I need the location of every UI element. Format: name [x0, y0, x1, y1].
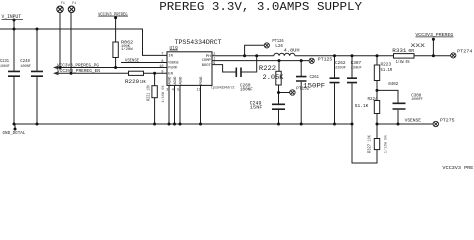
svg-text:PT125: PT125: [318, 56, 333, 62]
wire PH node: [212, 55, 274, 57]
svg-text:1: 1: [213, 57, 215, 61]
svg-text:VCC3V3 PRE: VCC3V3 PRE: [442, 166, 473, 169]
svg-text:220UF: 220UF: [335, 67, 347, 71]
node comp C261: [300, 59, 303, 62]
svg-text:IN: IN: [168, 55, 173, 59]
resistor R223 leads: [376, 56, 378, 91]
wire C260 to PH: [242, 56, 257, 72]
svg-text:BOOT: BOOT: [202, 64, 212, 68]
svg-text:R221 10K: R221 10K: [146, 85, 152, 101]
wire R222 riser: [278, 61, 280, 72]
svg-text:AGND: AGND: [168, 77, 172, 85]
node vsense R224/R327: [376, 123, 379, 126]
wire vsense net segment: [377, 123, 433, 125]
wire EN row: [57, 72, 168, 74]
svg-text:100UF: 100UF: [0, 65, 10, 69]
label VCC3V3_PREREG right: [415, 33, 453, 38]
svg-text:150PF: 150PF: [303, 82, 325, 89]
node gnd pin5: [179, 123, 182, 126]
wire top V_INPUT bus: [0, 29, 167, 55]
capacitor C308 plates: [393, 103, 406, 109]
svg-text:11: 11: [197, 89, 201, 93]
resistor R327 body: [374, 139, 379, 150]
svg-text:9: 9: [213, 62, 215, 66]
wire PGOOD row: [57, 67, 168, 69]
label C307: [351, 62, 363, 71]
resistor R222 body: [276, 71, 281, 85]
svg-text:R222: R222: [259, 65, 276, 72]
svg-text:R220: R220: [125, 78, 140, 85]
node vsense C308: [397, 123, 400, 126]
svg-text:R223: R223: [381, 63, 392, 68]
svg-text:1/16W 5%: 1/16W 5%: [383, 134, 388, 153]
svg-text:1/16W 5%: 1/16W 5%: [161, 85, 166, 103]
wire BOOT to C260: [212, 65, 236, 72]
svg-text:4: 4: [172, 89, 174, 93]
svg-text:PGOOD: PGOOD: [168, 67, 178, 71]
svg-text:VCC3V3_PREREG: VCC3V3_PREREG: [98, 12, 128, 17]
svg-text:PT274: PT274: [457, 49, 472, 55]
label VCC3V3_PREREG left: [98, 12, 128, 17]
label V_INPUT: [2, 14, 24, 20]
resistor R221 body: [152, 86, 157, 98]
svg-text:C249: C249: [250, 100, 262, 107]
testpoint PT125: [309, 58, 314, 63]
svg-text:C262: C262: [335, 62, 346, 66]
resistor R220 body: [129, 71, 144, 75]
svg-text:VSENSE: VSENSE: [168, 62, 179, 66]
IC pin numbers left: [159, 53, 163, 75]
node rail VCC label: [432, 54, 435, 57]
testpoint PT274: [451, 53, 456, 58]
IC bottom pin 3 wire: [168, 85, 170, 124]
IC pin names right: [202, 55, 212, 68]
label C260: [240, 84, 253, 92]
node fb divider: [376, 89, 379, 92]
node bus/C231: [13, 28, 16, 31]
wire rail after R331: [414, 55, 451, 57]
node gnd pin4: [173, 123, 176, 126]
off-page arrow row2: [53, 71, 59, 75]
capacitor C307 leads: [351, 56, 353, 124]
resistor R222 leads: [278, 85, 280, 124]
svg-text:R327 10K: R327 10K: [366, 135, 372, 153]
svg-text:tps54334drct: tps54334drct: [211, 86, 235, 91]
capacitor C308 lower lead: [397, 110, 399, 124]
node R062/PGOOD: [114, 66, 117, 69]
label C249: [250, 100, 264, 111]
resistor R221 leads: [154, 73, 156, 124]
resistor R224 leads: [376, 90, 378, 124]
resistor R062 body: [113, 42, 118, 58]
svg-text:F1: F1: [72, 2, 77, 6]
svg-text:L26: L26: [275, 43, 283, 49]
node VCC label anchor: [114, 16, 117, 19]
capacitor C261 plates: [296, 77, 307, 81]
wire PT152: [279, 92, 290, 94]
svg-text:C248: C248: [20, 59, 30, 64]
node V_INPUT anchor: [13, 19, 16, 22]
capacitor C248 leads: [36, 29, 38, 124]
node gnd R221: [153, 123, 156, 126]
capacitor C249 plates: [272, 104, 285, 109]
resistor R327 leads and return loop: [352, 124, 377, 163]
node bus/C248: [36, 28, 39, 31]
inductor L26: [274, 53, 295, 56]
testpoint screw top 1: [57, 6, 456, 127]
off-page arrow row1: [53, 66, 59, 70]
label C262: [335, 62, 347, 71]
resistor R331 body: [394, 54, 415, 59]
capacitor C231 leads: [13, 29, 15, 124]
label R331 0R: [392, 48, 414, 54]
node gnd C248: [36, 123, 39, 126]
node gnd C249: [277, 123, 280, 126]
IC bottom pin 4 wire: [174, 85, 176, 124]
node row1/drop1: [59, 66, 62, 69]
svg-text:GND_DGTAL: GND_DGTAL: [3, 130, 26, 136]
svg-text:XXX: XXX: [411, 42, 426, 49]
wire VCC3V3_PREREG right riser: [432, 39, 434, 56]
label R220: [125, 78, 146, 85]
label R062: [121, 39, 133, 52]
testpoint PT152: [290, 90, 295, 95]
ground bus: [15, 123, 352, 125]
label R221 rotated: [146, 85, 166, 103]
svg-text:0R: 0R: [408, 48, 414, 54]
svg-text:51.1K: 51.1K: [355, 103, 369, 109]
resistor R062 leads: [115, 18, 117, 68]
IC U19 TPS54334DRCT body: [167, 52, 212, 86]
testpoint PT126: [264, 43, 269, 48]
label C248: [20, 59, 31, 69]
wire V_INPUT label drop: [13, 20, 15, 29]
IC pin names bottom rotated: [168, 77, 204, 85]
svg-text:EN: EN: [168, 73, 173, 77]
svg-text:PT275: PT275: [440, 117, 455, 123]
svg-text:7: 7: [161, 53, 163, 57]
svg-text:VCC3V3_PREREG_EN: VCC3V3_PREREG_EN: [57, 68, 100, 74]
svg-text:3: 3: [166, 89, 168, 93]
node gnd C307/R327: [351, 123, 354, 126]
svg-text:R224: R224: [368, 98, 378, 102]
svg-text:VSENSE: VSENSE: [405, 118, 422, 124]
label R327 rotated: [366, 134, 388, 153]
testpoint screw top 2: [68, 6, 74, 12]
capacitor C262 plates: [330, 78, 340, 82]
resistor R223 body: [374, 65, 379, 81]
svg-text:VCC3V3_PREREG_PG: VCC3V3_PREREG_PG: [57, 62, 99, 68]
svg-text:COMP: COMP: [202, 59, 212, 63]
testpoint PT275: [433, 121, 438, 126]
node gnd pin11: [199, 123, 202, 126]
node VCC right anchor: [432, 38, 435, 41]
node gnd C262: [333, 123, 336, 126]
IC pin numbers right: [213, 53, 215, 66]
wire fb node to C308: [377, 90, 398, 102]
capacitor C307 plates: [347, 78, 357, 82]
node gnd label: [14, 128, 17, 131]
wire testpoint drop 2: [70, 13, 72, 74]
svg-text:15NF: 15NF: [250, 107, 263, 111]
node comp R222: [278, 59, 281, 62]
svg-text:10K: 10K: [140, 80, 146, 85]
wire after inductor to rail: [295, 55, 394, 57]
label C231: [0, 59, 10, 69]
node rail C307: [351, 54, 354, 57]
svg-text:4.8UH: 4.8UH: [284, 48, 300, 54]
label R223: [381, 63, 399, 87]
capacitor C231 plates: [8, 68, 406, 110]
svg-text:C261: C261: [310, 76, 320, 80]
svg-text:VCC3V3_PREREG: VCC3V3_PREREG: [415, 33, 453, 38]
svg-text:1/4W 5%: 1/4W 5%: [396, 60, 410, 65]
wire COMP: [212, 60, 309, 62]
svg-text:PGND: PGND: [200, 77, 204, 85]
svg-text:R331: R331: [392, 48, 406, 54]
svg-text:2.05K: 2.05K: [263, 74, 284, 81]
svg-text:10: 10: [159, 65, 163, 69]
IC bottom pin 11 wire: [200, 85, 202, 124]
node PH/PT126: [243, 54, 246, 57]
svg-text:C231: C231: [0, 59, 9, 64]
wire gnd label stub: [14, 124, 16, 129]
svg-text:TPS54334DRCT: TPS54334DRCT: [175, 39, 222, 46]
wire VSENSE stub: [121, 62, 167, 64]
svg-text:AGND: AGND: [179, 77, 183, 85]
IC pin numbers bottom: [166, 89, 201, 93]
wire PT126 riser: [245, 45, 265, 56]
svg-text:100NF: 100NF: [240, 89, 253, 93]
IC bottom pin 5 wire: [179, 85, 181, 124]
resistor R224 body: [374, 101, 379, 114]
capacitor C260 plates (vertical): [236, 68, 241, 78]
node rail R223: [376, 54, 379, 57]
svg-text:C307: C307: [351, 62, 362, 66]
svg-text:PREREG 3.3V, 3.0AMPS SUPPLY: PREREG 3.3V, 3.0AMPS SUPPLY: [159, 0, 362, 14]
capacitor C261 leads: [300, 61, 302, 124]
svg-text:100NF: 100NF: [20, 65, 31, 69]
node PH/boot return: [255, 54, 258, 57]
svg-text:1/20W: 1/20W: [121, 47, 133, 52]
node row2/drop2: [70, 72, 73, 75]
svg-text:220UF: 220UF: [351, 67, 363, 71]
node gnd C261: [300, 123, 303, 126]
svg-text:0402: 0402: [388, 82, 398, 87]
svg-text:1000PF: 1000PF: [411, 98, 423, 102]
capacitor C248 plates: [31, 71, 43, 76]
svg-text:5: 5: [177, 89, 179, 93]
wire testpoint drop 1: [59, 13, 61, 68]
capacitor C262 leads: [334, 56, 336, 124]
svg-text:F1: F1: [61, 2, 66, 6]
node gnd C231: [13, 123, 16, 126]
node rail C262: [333, 54, 336, 57]
node R221 top: [153, 72, 156, 75]
svg-text:9: 9: [161, 71, 163, 75]
svg-text:VSENSE: VSENSE: [125, 59, 139, 64]
svg-text:AGND: AGND: [174, 77, 178, 85]
label C308: [411, 94, 423, 102]
svg-text:51.1R: 51.1R: [381, 68, 393, 73]
svg-text:8: 8: [161, 60, 163, 64]
node gnd pin3: [168, 123, 171, 126]
node R222/C249/PT152: [277, 91, 280, 94]
IC pin names left: [168, 55, 179, 77]
